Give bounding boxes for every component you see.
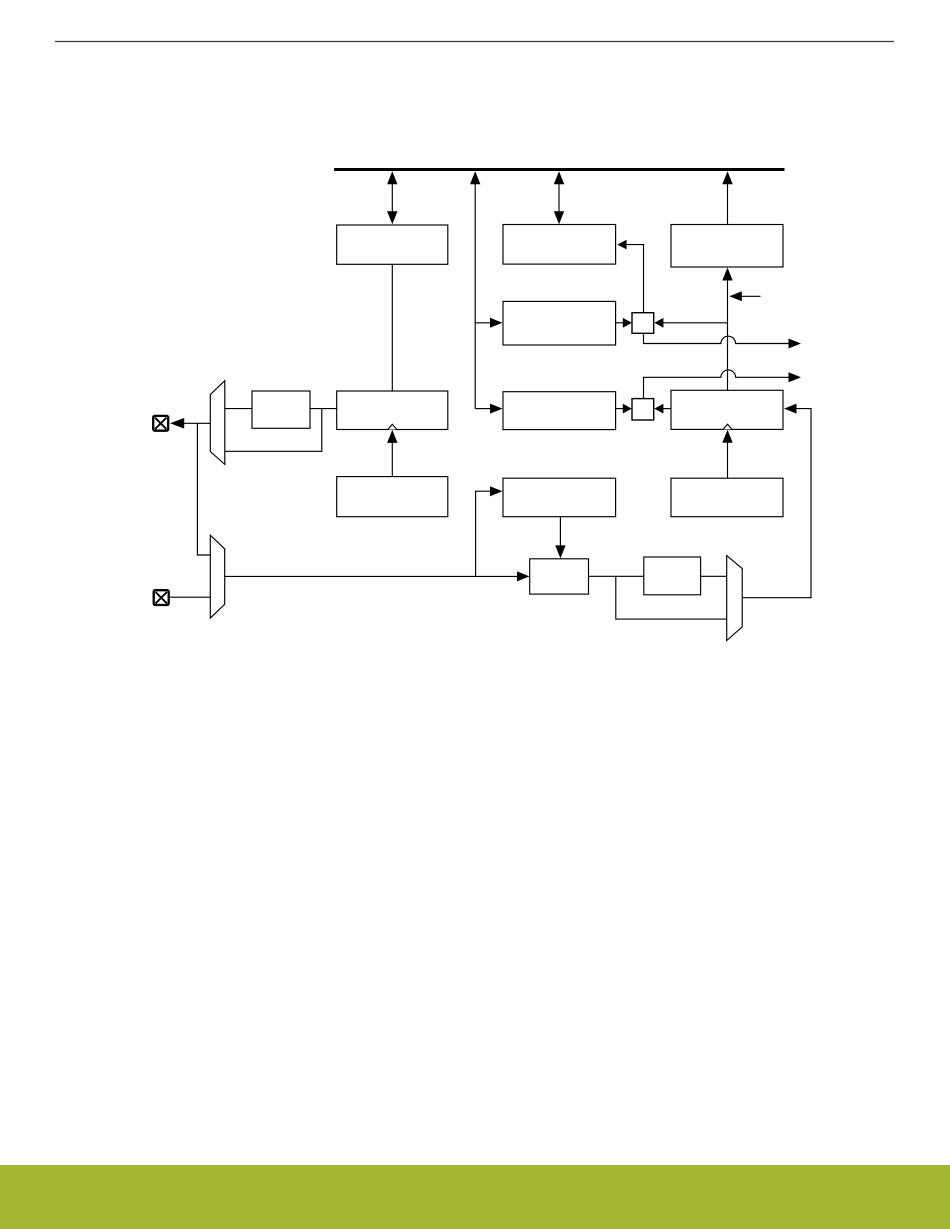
mux M1 (left pointing) bbox=[210, 381, 225, 465]
wire arrow box B6 to square S2 bbox=[616, 404, 632, 414]
wire mux M1 input from box SB bbox=[225, 408, 252, 410]
box B11 bbox=[530, 559, 589, 594]
box B10 bbox=[671, 478, 783, 517]
box B5 with clock notch bbox=[337, 391, 448, 430]
wire arrow from vertical line into square S1 right side bbox=[654, 318, 727, 328]
box B4 bbox=[503, 301, 616, 345]
box B9 bbox=[503, 478, 616, 517]
wire arrow box B3 up to bus bbox=[722, 171, 732, 224]
wire vertical branch from trunk down to box B9 and output line bbox=[476, 486, 503, 576]
wire box B12 to mux M3 upper input bbox=[701, 575, 727, 577]
pad P2 bbox=[154, 590, 169, 605]
box B8 bbox=[337, 477, 448, 517]
wire stub arrow into vertical line (control input) bbox=[729, 291, 760, 301]
box B6 bbox=[503, 392, 616, 430]
wire arrow box B4 to square S1 bbox=[616, 318, 632, 328]
wire branch from B11-B12 line down to mux M3 lower input bbox=[616, 576, 727, 619]
wire branch from pad line down to mux M2 input bbox=[197, 423, 210, 555]
mux M2 (right pointing) bbox=[210, 535, 224, 618]
bus (data bus) bbox=[334, 168, 785, 171]
wire box B1 to box B5 bbox=[391, 264, 393, 391]
header rule bbox=[55, 41, 894, 43]
wire arrow box B10 up to box B7 clock bbox=[722, 430, 732, 478]
square S1 bbox=[632, 313, 654, 334]
square S2 bbox=[632, 399, 654, 420]
wire from square S1 bottom to right output with hop bbox=[644, 333, 802, 349]
wire arrow box B8 up to box B5 clock bbox=[387, 430, 397, 477]
pad P1 bbox=[153, 416, 168, 431]
wire bidirectional arrow box B1 to bus bbox=[387, 171, 397, 224]
wire vertical from box B7 top up into box B3 bottom with arrow bbox=[722, 268, 732, 392]
mux M3 (right pointing) bbox=[727, 556, 743, 641]
box B3 bbox=[671, 225, 783, 268]
wire arrow box B7 left to square S2 bbox=[654, 404, 671, 414]
wire feedback from square S1 into box B2 right side bbox=[617, 240, 643, 313]
wire arrow box B9 down to box B11 bbox=[555, 517, 565, 559]
wire from square S2 top to right output with hop bbox=[644, 370, 802, 399]
wire vertical trunk from bus down to box B6 with branch to box B4 bbox=[470, 171, 503, 413]
box B7 with clock notch bbox=[671, 390, 783, 429]
box SB small box left bbox=[252, 391, 310, 428]
wire box B11 to box B12 bbox=[589, 575, 644, 577]
wire from mux M3 output up into box B7 right side bbox=[742, 404, 811, 598]
wire bidirectional arrow box B2 to bus bbox=[554, 171, 564, 224]
wire pad P2 to mux M2 input bbox=[168, 596, 210, 598]
wire box SB to box B5 with feedback branch to mux M1 bbox=[225, 409, 337, 452]
footer bar bbox=[0, 1165, 950, 1229]
box B12 bbox=[644, 557, 701, 595]
wire mux M2 output to box B11 bbox=[225, 571, 530, 581]
box B1 bbox=[337, 225, 448, 264]
box B2 bbox=[503, 225, 616, 265]
wire mux M1 output to pad P1 bbox=[170, 418, 210, 429]
